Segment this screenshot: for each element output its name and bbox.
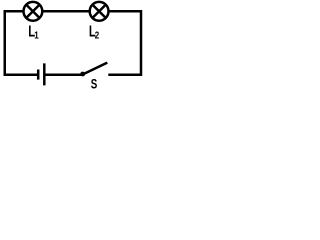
svg-text:1: 1 [34, 29, 38, 40]
svg-text:S: S [91, 77, 98, 91]
svg-text:2: 2 [95, 29, 99, 40]
